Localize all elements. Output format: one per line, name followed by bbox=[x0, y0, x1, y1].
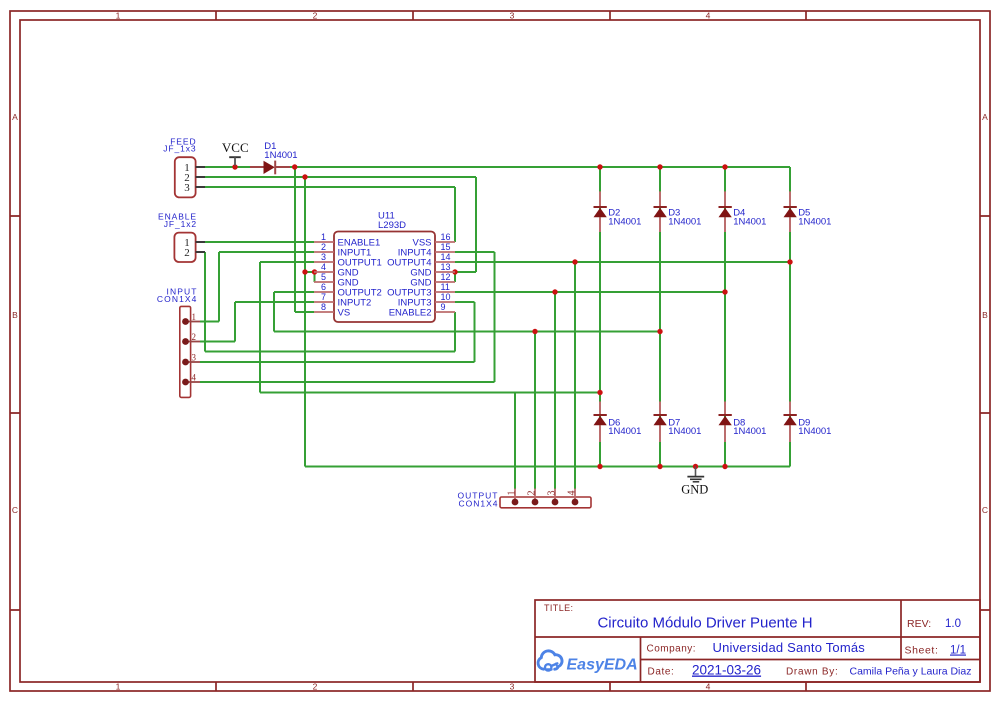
svg-text:Circuito Módulo Driver Puente: Circuito Módulo Driver Puente H bbox=[597, 615, 812, 632]
svg-text:2: 2 bbox=[184, 247, 190, 259]
junction GND riser bbox=[302, 174, 307, 179]
wire net VCC y167 FEED.1 to D1 bbox=[205, 166, 251, 168]
wire INPUT.4 y382 bbox=[200, 381, 495, 383]
U11 pin lead 5 bbox=[314, 281, 334, 283]
wire ENABLE1 y242 bbox=[205, 241, 314, 243]
INPUT pin dot 3 bbox=[182, 359, 189, 366]
svg-text:12: 12 bbox=[441, 272, 451, 282]
wire riser ENABLE2 x455 bbox=[454, 312, 456, 352]
wire riser INPUT4 x494.5 bbox=[494, 252, 496, 382]
OUTPUT pin dot 3 bbox=[552, 499, 559, 506]
wire diode column x600 bbox=[599, 167, 601, 467]
FEED pin stub 3 bbox=[196, 186, 205, 188]
svg-text:1N4001: 1N4001 bbox=[733, 217, 766, 228]
U11 pin names right bbox=[387, 237, 431, 318]
svg-text:C: C bbox=[982, 505, 988, 515]
svg-text:2021-03-26: 2021-03-26 bbox=[692, 663, 761, 678]
frame column labels top bbox=[116, 11, 711, 21]
ENABLE pin stub 2 bbox=[196, 251, 205, 253]
wire net FEED3 y187 bbox=[205, 186, 455, 188]
svg-text:Sheet:: Sheet: bbox=[905, 645, 939, 657]
INPUT pin lead 2 bbox=[186, 341, 200, 343]
svg-text:C: C bbox=[12, 505, 18, 515]
ENABLE pin stub 1 bbox=[196, 241, 205, 243]
wire INPUT.2 y341.5 bbox=[200, 341, 235, 343]
connector INPUT CON1X4 bbox=[157, 287, 200, 398]
svg-text:GND: GND bbox=[681, 483, 708, 497]
diode D9 1N4001 bbox=[784, 402, 832, 443]
wire INPUT.3 y362 bbox=[200, 361, 475, 363]
wire INPUT3 y302 right bbox=[455, 301, 475, 303]
junction OUTPUT1 D6 bbox=[597, 390, 602, 395]
wire GND pin13-12 elbow bbox=[454, 272, 456, 282]
wire riser OUTPUT.1 x515 bbox=[514, 393, 516, 490]
wire riser OUTPUT2 x274 bbox=[273, 292, 275, 332]
diode D8 1N4001 bbox=[719, 402, 767, 443]
svg-text:A: A bbox=[982, 112, 988, 122]
svg-text:VCC: VCC bbox=[222, 140, 249, 155]
diode D2 1N4001 bbox=[594, 191, 642, 232]
junction VCC bbox=[232, 164, 237, 169]
svg-text:1: 1 bbox=[116, 11, 121, 21]
svg-text:4: 4 bbox=[567, 491, 578, 496]
U11 pin names left bbox=[338, 237, 382, 318]
OUTPUT pin lead 3 bbox=[554, 489, 556, 503]
OUTPUT pin dot 4 bbox=[572, 499, 579, 506]
wire OUTPUT4 y262 right bbox=[455, 261, 790, 263]
OUTPUT pin dot 2 bbox=[532, 499, 539, 506]
junction rail D4 bbox=[722, 164, 727, 169]
INPUT pin dot 1 bbox=[182, 318, 189, 325]
wire INPUT2 y302 left bbox=[235, 301, 314, 303]
wire riser OUTPUT.3 x555 bbox=[554, 292, 556, 489]
svg-text:L293D: L293D bbox=[378, 220, 406, 231]
svg-text:14: 14 bbox=[441, 252, 451, 262]
EasyEDA logo bbox=[538, 651, 638, 674]
svg-text:2: 2 bbox=[321, 242, 326, 252]
svg-text:1: 1 bbox=[507, 491, 518, 496]
svg-text:JF_1x2: JF_1x2 bbox=[164, 219, 197, 229]
wire OUTPUT2 y292 left bbox=[274, 291, 314, 293]
frame ticks right bbox=[980, 216, 990, 610]
wire OUTPUT1 y262 left bbox=[260, 261, 314, 263]
svg-text:1N4001: 1N4001 bbox=[733, 426, 766, 437]
wire riser INPUT2 x235 bbox=[234, 302, 236, 342]
frame ticks top bbox=[216, 11, 806, 20]
wire diode column x725 bbox=[724, 167, 726, 467]
junction bottom D7 bbox=[657, 464, 662, 469]
svg-text:3: 3 bbox=[510, 11, 515, 21]
svg-text:VS: VS bbox=[338, 307, 351, 318]
wire INPUT.1 y321.5 bbox=[200, 321, 219, 323]
INPUT pin lead 3 bbox=[186, 361, 200, 363]
svg-text:JF_1x3: JF_1x3 bbox=[163, 144, 196, 154]
svg-text:Universidad Santo Tomás: Universidad Santo Tomás bbox=[713, 640, 866, 655]
svg-text:2: 2 bbox=[313, 682, 318, 692]
svg-text:1N4001: 1N4001 bbox=[798, 426, 831, 437]
svg-text:Camila Peña y Laura Diaz: Camila Peña y Laura Diaz bbox=[850, 666, 972, 678]
svg-text:8: 8 bbox=[321, 302, 326, 312]
junction rail D3 bbox=[657, 164, 662, 169]
U11 pin lead 12 bbox=[435, 281, 455, 283]
wire bottom rail y466.5 bbox=[305, 466, 790, 468]
svg-text:3: 3 bbox=[547, 491, 558, 496]
wire riser GND x305 bbox=[304, 177, 306, 467]
wire OUTPUT1 y392.5 bbox=[260, 392, 600, 394]
U11 pin lead 10 bbox=[435, 301, 455, 303]
junction bottom GND stem bbox=[693, 464, 698, 469]
svg-text:Company:: Company: bbox=[647, 644, 697, 655]
svg-text:1N4001: 1N4001 bbox=[608, 217, 641, 228]
svg-text:6: 6 bbox=[321, 282, 326, 292]
wire riser INPUT3 x474.5 bbox=[474, 302, 476, 362]
svg-text:1: 1 bbox=[321, 232, 326, 242]
connector J FEED JF_1x3 bbox=[163, 137, 205, 198]
junction dots bbox=[232, 164, 792, 469]
svg-text:9: 9 bbox=[441, 302, 446, 312]
U11 pin lead 1 bbox=[314, 241, 334, 243]
svg-text:B: B bbox=[12, 310, 18, 320]
svg-text:1.0: 1.0 bbox=[945, 618, 961, 630]
FEED pin stub 2 bbox=[196, 176, 205, 178]
svg-text:CON1X4: CON1X4 bbox=[157, 294, 198, 304]
wire GND y272 right stub bbox=[455, 271, 476, 273]
frame column labels bottom bbox=[116, 682, 711, 692]
INPUT pin dot 4 bbox=[182, 379, 189, 386]
U11 pin lead 3 bbox=[314, 261, 334, 263]
svg-text:1N4001: 1N4001 bbox=[264, 150, 297, 161]
svg-text:1N4001: 1N4001 bbox=[608, 426, 641, 437]
U11 pin lead 8 bbox=[314, 311, 334, 313]
svg-text:3: 3 bbox=[510, 682, 515, 692]
wire INPUT4 y252 right bbox=[455, 251, 495, 253]
U11 pin lead 6 bbox=[314, 291, 334, 293]
junction bottom D6 bbox=[597, 464, 602, 469]
wire net GND y177 FEED.2 to riser bbox=[205, 176, 476, 178]
svg-text:1: 1 bbox=[192, 312, 197, 322]
U11 pin lead 9 bbox=[435, 311, 455, 313]
svg-text:1N4001: 1N4001 bbox=[668, 217, 701, 228]
wire riser OUTPUT1 x260 bbox=[259, 262, 261, 393]
wire VS y312 bbox=[295, 311, 314, 313]
frame row labels left bbox=[12, 112, 18, 515]
svg-text:1N4001: 1N4001 bbox=[668, 426, 701, 437]
svg-text:11: 11 bbox=[441, 282, 450, 292]
diode D5 1N4001 bbox=[784, 191, 832, 232]
FEED pin stub 1 bbox=[196, 166, 205, 168]
diode D7 1N4001 bbox=[654, 402, 702, 443]
U11 pin lead 7 bbox=[314, 301, 334, 303]
OUTPUT pin lead 1 bbox=[514, 489, 516, 503]
wire INPUT1 y252 left bbox=[219, 251, 314, 253]
junction D1 cathode node bbox=[292, 164, 297, 169]
svg-text:3: 3 bbox=[321, 252, 326, 262]
svg-text:4: 4 bbox=[192, 373, 197, 383]
svg-text:B: B bbox=[982, 310, 988, 320]
wire riser GND x476 bbox=[475, 177, 477, 272]
svg-text:1: 1 bbox=[116, 682, 121, 692]
junction OUTPUT2 riser bbox=[532, 329, 537, 334]
frame ticks left bbox=[10, 216, 20, 610]
wire riser OUTPUT.2 x535 bbox=[534, 332, 536, 490]
svg-text:2: 2 bbox=[192, 332, 197, 342]
svg-text:3: 3 bbox=[184, 182, 190, 194]
junction GND left a bbox=[302, 269, 307, 274]
junction GND pin13 bbox=[452, 269, 457, 274]
svg-text:16: 16 bbox=[441, 232, 451, 242]
wire riser FEED3-VSS x455 bbox=[454, 187, 456, 242]
U11 pin numbers left bbox=[321, 232, 326, 312]
diode D1 1N4001 bbox=[250, 141, 298, 174]
wire net VCC y167 D1 to top rail end bbox=[290, 166, 790, 168]
svg-text:2: 2 bbox=[527, 491, 538, 496]
U11 pin lead 16 bbox=[435, 241, 455, 243]
ground GND symbol bbox=[681, 467, 708, 497]
INPUT pin lead 4 bbox=[186, 381, 200, 383]
title block bbox=[535, 600, 980, 682]
junction OUTPUT4 riser bbox=[572, 259, 577, 264]
op-amp U11 L293D IC body bbox=[314, 232, 455, 323]
connector ENABLE JF_1x2 bbox=[158, 212, 205, 263]
wire ENABLE2 y351.5 bbox=[205, 351, 455, 353]
junction OUTPUT3 riser bbox=[552, 289, 557, 294]
svg-text:REV:: REV: bbox=[907, 618, 931, 630]
OUTPUT pin lead 4 bbox=[574, 489, 576, 503]
wire OUTPUT2 y331.5 bbox=[274, 331, 660, 333]
U11 pin lead 15 bbox=[435, 251, 455, 253]
svg-text:7: 7 bbox=[321, 292, 326, 302]
wire GND y272 left stub bbox=[305, 271, 315, 273]
INPUT pin dot 2 bbox=[182, 338, 189, 345]
wire riser VS x295 bbox=[294, 167, 296, 312]
INPUT pin lead 1 bbox=[186, 321, 200, 323]
svg-text:TITLE:: TITLE: bbox=[544, 603, 573, 613]
svg-text:A: A bbox=[12, 112, 18, 122]
svg-text:4: 4 bbox=[706, 11, 711, 21]
U11 pin numbers right bbox=[441, 232, 451, 312]
svg-text:ENABLE2: ENABLE2 bbox=[389, 307, 432, 318]
junction bottom D8 bbox=[722, 464, 727, 469]
diode D4 1N4001 bbox=[719, 191, 767, 232]
wire riser OUTPUT.4 x575 bbox=[574, 262, 576, 489]
junction GND pin4 bbox=[312, 269, 317, 274]
OUTPUT pin dot 1 bbox=[512, 499, 519, 506]
U11 pin lead 14 bbox=[435, 261, 455, 263]
svg-text:CON1X4: CON1X4 bbox=[458, 499, 498, 509]
power flag VCC bbox=[222, 140, 249, 166]
OUTPUT pin lead 2 bbox=[534, 489, 536, 503]
junction OUTPUT4 D5 bbox=[787, 259, 792, 264]
U11 pin lead 2 bbox=[314, 251, 334, 253]
frame ticks bottom bbox=[216, 682, 806, 691]
U11 pin lead 13 bbox=[435, 271, 455, 273]
svg-text:1N4001: 1N4001 bbox=[798, 217, 831, 228]
svg-text:Date:: Date: bbox=[648, 667, 675, 678]
junction OUTPUT2 D3 bbox=[657, 329, 662, 334]
svg-text:13: 13 bbox=[441, 262, 451, 272]
svg-text:4: 4 bbox=[706, 682, 711, 692]
diode D6 1N4001 bbox=[594, 402, 642, 443]
svg-text:5: 5 bbox=[321, 272, 326, 282]
svg-text:EasyEDA: EasyEDA bbox=[567, 657, 638, 674]
wire riser INPUT1 x219 bbox=[218, 252, 220, 322]
svg-text:4: 4 bbox=[321, 262, 326, 272]
svg-text:Drawn By:: Drawn By: bbox=[786, 667, 838, 678]
junction rail D2 bbox=[597, 164, 602, 169]
svg-text:15: 15 bbox=[441, 242, 451, 252]
junction OUTPUT3 D4 bbox=[722, 289, 727, 294]
U11 pin lead 11 bbox=[435, 291, 455, 293]
svg-text:2: 2 bbox=[313, 11, 318, 21]
connector OUTPUT CON1X4 bbox=[458, 489, 591, 509]
svg-text:1/1: 1/1 bbox=[950, 645, 966, 657]
wire OUTPUT3 y292 right bbox=[455, 291, 725, 293]
wire diode column x660 bbox=[659, 167, 661, 467]
frame row labels right bbox=[982, 112, 988, 515]
svg-text:3: 3 bbox=[192, 353, 197, 363]
svg-text:10: 10 bbox=[441, 292, 451, 302]
wire GND pin4-5 elbow bbox=[314, 272, 316, 282]
U11 pin lead 4 bbox=[314, 271, 334, 273]
diode D3 1N4001 bbox=[654, 191, 702, 232]
wire diode column x790 bbox=[789, 167, 791, 467]
wire riser ENABLE2 x205 bbox=[204, 252, 206, 352]
